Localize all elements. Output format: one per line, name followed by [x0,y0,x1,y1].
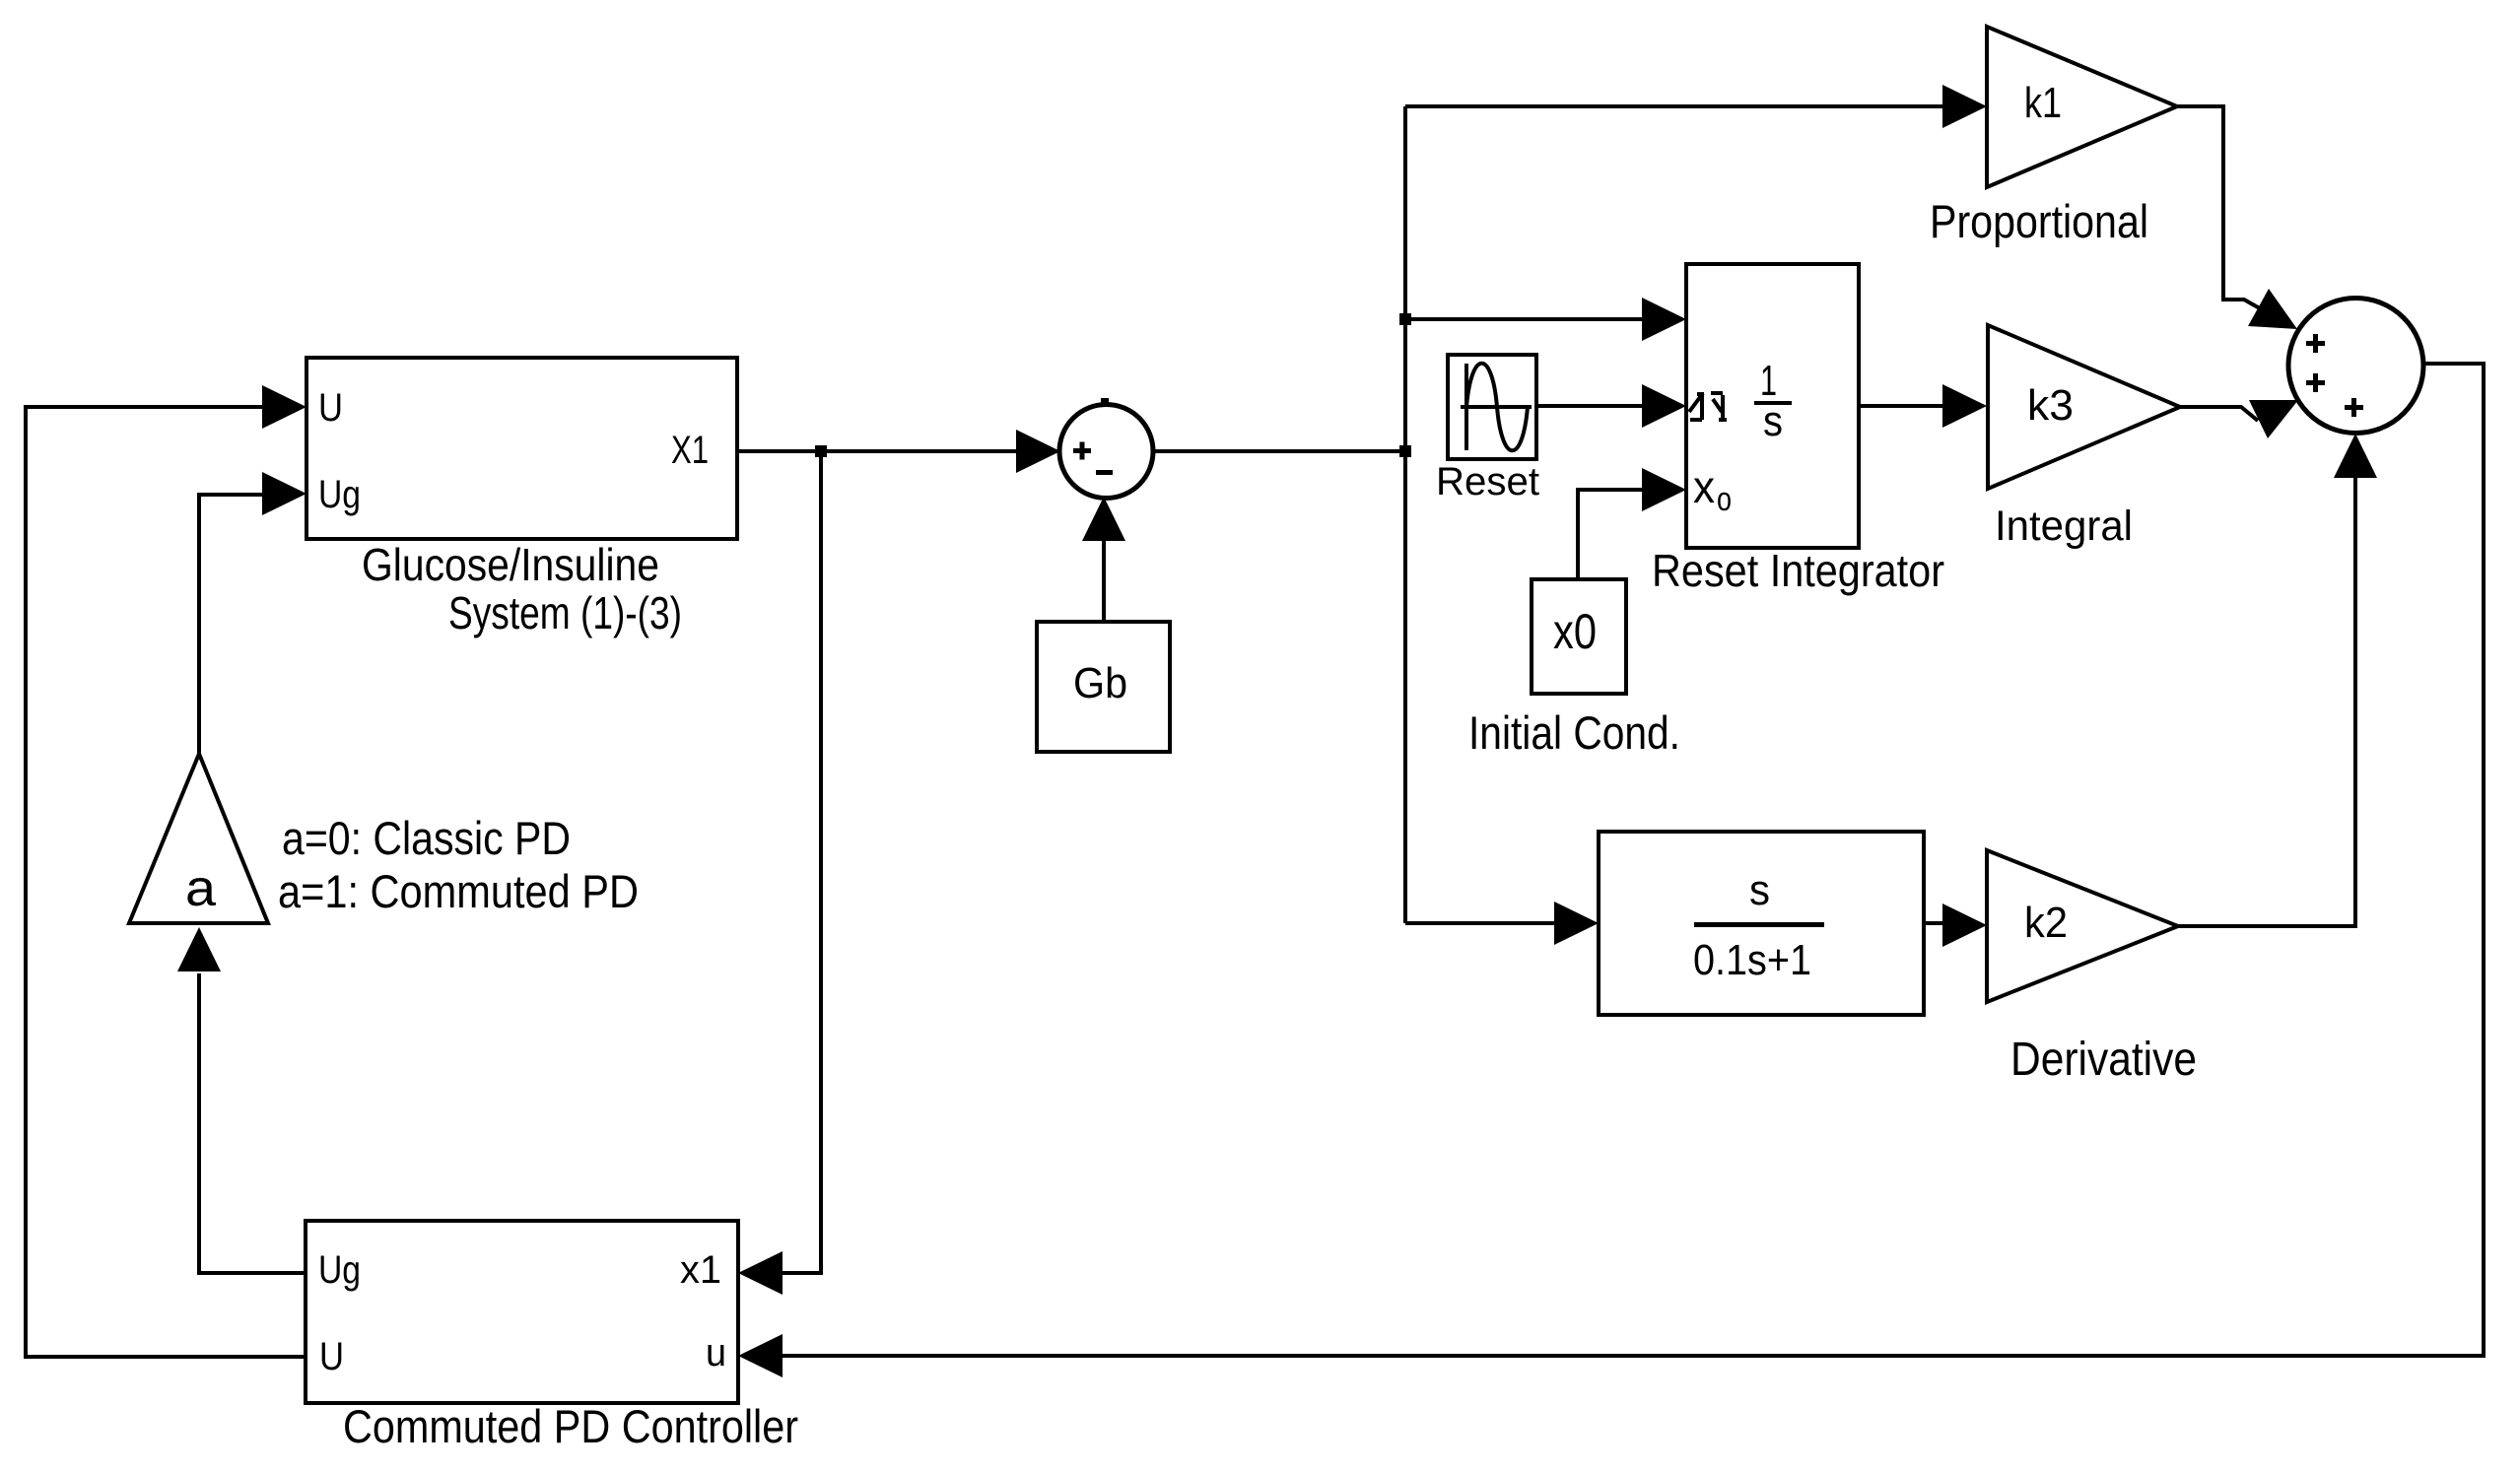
sum2 circle (+++) [2288,299,2423,434]
svg-text:k3: k3 [2027,381,2074,430]
arrowhead into sum2 bottom [2334,434,2377,478]
arrowhead into Commuted PD x1 [738,1251,783,1295]
wire branch X1 -> Commuted PD x1 input [781,451,821,1273]
arrowhead into Reset Integrator port 1 [1642,298,1686,341]
arrowhead into sum1 bottom [1082,497,1125,541]
svg-text:Commuted PD Controller: Commuted PD Controller [343,1400,798,1452]
svg-text:Reset Integrator: Reset Integrator [1652,545,1944,596]
svg-text:x1: x1 [680,1248,721,1292]
svg-text:x: x [1693,461,1715,512]
sum2 plus sign 2 [2306,380,2325,385]
wire Commuted PD Ug output -> gain a input [199,973,306,1273]
svg-text:U: U [318,386,343,430]
svg-text:a: a [185,860,216,917]
svg-text:Glucose/Insuline: Glucose/Insuline [362,539,659,590]
wire sum1 output -> main vertical [1153,449,1405,453]
wire k1 output -> sum2 input 1 [2177,106,2267,312]
sum2 plus sign 3 [2345,405,2363,410]
svg-text:u: u [706,1331,726,1374]
svg-text:a=0: Classic PD: a=0: Classic PD [282,812,571,864]
wire Gb -> sum1 bottom [1102,539,1106,622]
arrowhead into Commuted PD u [738,1334,783,1377]
trigger icon falling edge [1711,393,1727,420]
svg-text:Derivative: Derivative [2010,1034,2197,1086]
wire trunk -> Transfer Fcn input [1405,921,1556,925]
svg-text:x0: x0 [1553,604,1597,659]
svg-text:System (1)-(3): System (1)-(3) [448,587,682,638]
svg-text:Ug: Ug [318,473,361,516]
block Reset Integrator [1686,264,1859,548]
svg-text:Reset: Reset [1436,460,1539,503]
wire k3 output -> sum2 input 2 [2180,407,2258,421]
svg-text:s: s [1749,866,1770,914]
block Glucose/Insuline System [306,358,737,539]
wire Reset Integrator output -> k3 [1859,404,1944,408]
arrowhead into sum1 left [1016,430,1060,473]
block x0 constant [1532,579,1626,694]
svg-text:X1: X1 [671,429,709,472]
wire trunk -> Reset Integrator input 1 [1405,317,1644,321]
arrowhead into Glucose Ug [262,472,306,515]
arrowhead into Reset Integrator port 2 [1642,384,1686,428]
arrowhead into k2 [1942,904,1987,947]
sum1 top port tick [1101,398,1109,406]
svg-text:U: U [319,1335,344,1378]
junction dot trunk/sum1 line [1399,445,1411,457]
block Gb constant [1037,622,1170,752]
svg-text:a=1: Commuted PD: a=1: Commuted PD [278,865,639,917]
junction dot trunk/integrator branch [1399,313,1411,325]
wire Transfer Fcn output -> k2 [1924,921,1944,925]
wire k2 output -> sum2 bottom input [2178,475,2355,926]
fraction bar of Transfer Fcn [1694,922,1824,927]
wire gain a output -> Glucose Ug input [199,495,264,754]
gain a triangle (points up) [129,754,268,923]
svg-text:Ug: Ug [318,1248,361,1292]
arrowhead into k1 [1942,85,1987,128]
wire sum2 output -> right -> down -> Commuted PD u input [783,364,2484,1356]
wire U feedback loop (Commuted PD U output -> left -> up -> Glucose U input) [26,407,306,1357]
wire x0 -> Reset Integrator input 3 [1578,490,1644,579]
gain k1 triangle [1987,27,2177,187]
arrowhead into k3 [1942,384,1987,428]
svg-text:Gb: Gb [1073,659,1127,707]
Reset icon horizontal axis [1461,405,1532,409]
trigger icon rising edge [1689,393,1704,420]
Reset icon vertical axis [1464,364,1468,450]
wire trunk -> k1 input [1405,104,1944,108]
arrowhead into Glucose U [262,385,306,429]
svg-text:o: o [1717,481,1732,518]
svg-text:Initial Cond.: Initial Cond. [1468,706,1680,759]
arrowhead into sum2 lower-left port [2249,400,2298,438]
fraction bar of 1/s [1754,401,1792,405]
wire Reset -> Reset Integrator input 2 [1536,404,1644,408]
sum1 circle (+/-) [1059,405,1153,499]
svg-text:Proportional: Proportional [1930,195,2148,247]
arrowhead into sum2 upper-left port [2248,289,2297,329]
sum1 plus sign [1073,448,1091,453]
wire X1 output -> sum1 [737,449,1018,453]
wire main vertical trunk [1403,106,1407,923]
sum1 minus sign [1096,470,1113,475]
block Transfer Fcn s/(0.1s+1) [1599,832,1924,1015]
svg-text:k2: k2 [2024,899,2068,947]
svg-text:Integral: Integral [1995,502,2133,550]
junction dot at X1 branch [815,445,827,457]
svg-text:0.1s+1: 0.1s+1 [1693,936,1811,984]
block Commuted PD Controller [306,1221,738,1403]
Reset icon sine wave [1466,364,1528,451]
svg-text:s: s [1763,397,1783,445]
arrowhead into gain a [177,927,221,971]
arrowhead into Reset Integrator port 3 [1642,468,1686,511]
block Reset source [1448,355,1536,459]
arrowhead into Transfer Fcn [1554,902,1599,945]
gain k3 triangle [1988,325,2180,489]
svg-text:k1: k1 [2024,79,2062,127]
gain k2 triangle [1987,850,2178,1002]
sum2 plus sign 1 [2306,341,2325,346]
